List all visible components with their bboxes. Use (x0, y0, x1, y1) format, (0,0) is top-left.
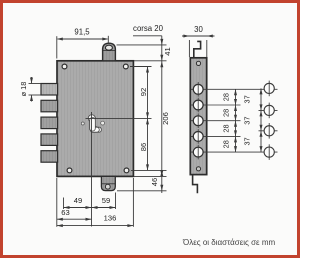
ext line body-left top (56, 36, 58, 58)
svg-text:37: 37 (242, 116, 251, 124)
arrow 28 mid a (234, 130, 237, 136)
ext line body bottom (134, 175, 167, 177)
arrow 28 mid a (234, 115, 237, 121)
arrow 92 bottom (146, 112, 149, 118)
ext line bolt top (29, 83, 41, 85)
keyhole foot (90, 127, 99, 132)
arrow 46 bottom (160, 185, 163, 191)
centre line door hole 2 (259, 109, 278, 111)
arrow 28 bottom (234, 146, 237, 152)
svg-text:92: 92 (139, 88, 148, 96)
door hole 2 (264, 105, 274, 115)
svg-text:28: 28 (221, 140, 230, 148)
ext line latch axis (107, 36, 109, 43)
arrow 37 bottom (260, 146, 263, 152)
keyhole dot right (101, 121, 105, 125)
svg-text:corsa 20: corsa 20 (133, 24, 164, 33)
arrow 30 right (207, 35, 213, 38)
corsa leader line (133, 35, 162, 37)
keyhole cutout (90, 115, 102, 132)
ext line bottom-latch bottom (117, 190, 167, 192)
arrow o18 top (30, 78, 33, 84)
svg-text:63: 63 (61, 208, 69, 217)
svg-text:28: 28 (221, 109, 230, 117)
centre tick plate hole 5 (197, 145, 199, 160)
arrow 136 left (57, 224, 63, 227)
centre tick door hole 2 (268, 103, 270, 119)
centre line plate hole 4 (191, 135, 241, 137)
arrow 91,5 right (102, 38, 108, 41)
dim line 136 (57, 225, 134, 227)
arrow 206 top (160, 61, 163, 67)
dim line 63 (57, 218, 92, 220)
plate hole 2 (193, 100, 203, 110)
ext line bolt bottom (29, 94, 41, 96)
ext line top screw hole (130, 66, 152, 68)
dim line 49-59 (64, 207, 116, 209)
arrow 28 mid a (234, 99, 237, 105)
arrow 86 top (146, 118, 149, 124)
ext line plate left (188, 40, 190, 57)
plate top bent tab (194, 41, 201, 57)
arrow 86 bottom (146, 164, 149, 170)
bottom latch screw (105, 184, 110, 189)
svg-text:41: 41 (163, 47, 172, 55)
bolt 4 (41, 134, 58, 146)
lock body (57, 61, 133, 177)
svg-text:86: 86 (139, 143, 148, 151)
bottom latch (101, 176, 115, 190)
arrow 37 mid b (260, 110, 263, 116)
keyhole dot left (81, 122, 84, 125)
centre tick door hole 3 (268, 123, 270, 139)
bolt 2 (41, 100, 58, 112)
plate hole 5 (193, 147, 203, 157)
faceplate (190, 58, 206, 175)
ext line body top (134, 60, 167, 62)
arrow 49 right (86, 206, 92, 209)
door hole 1 (264, 83, 274, 93)
centre tick plate hole 4 (197, 129, 199, 144)
top latch cylinder (103, 43, 116, 61)
centre line plate hole 1 (191, 88, 278, 90)
arrow 28 top (234, 89, 237, 95)
arrow 59 left (92, 206, 98, 209)
top latch screw ellipse (105, 45, 112, 50)
centre line plate hole 5 (191, 151, 278, 153)
door hole 3 (264, 126, 274, 136)
arrow 46 top (160, 170, 163, 176)
ext line bottom latch right (115, 193, 117, 210)
plate small hole bottom (196, 167, 200, 171)
screw hole bottom-left (67, 168, 72, 173)
centre tick plate hole 2 (197, 98, 199, 113)
centre line plate hole 3 (191, 120, 241, 122)
arrow 206 bottom (160, 170, 163, 176)
centre line keyhole vertical (91, 112, 93, 227)
bolt 1 (41, 84, 58, 96)
arrow 92 top (146, 67, 149, 73)
svg-text:28: 28 (221, 124, 230, 132)
dim line 91,5 (58, 38, 108, 40)
plate small hole top (196, 61, 200, 65)
door hole 4 (264, 147, 274, 157)
ext line body-left bottom (56, 178, 58, 227)
svg-text:30: 30 (194, 25, 203, 34)
arrow 37 mid a (260, 104, 263, 110)
dim line 28 chain (235, 89, 237, 152)
dim line right stack (161, 36, 163, 193)
dim line 30 (182, 35, 215, 37)
arrow 30 left (183, 35, 189, 38)
note: all dimensions in mm (Greek) (183, 238, 275, 247)
svg-text:28: 28 (221, 93, 230, 101)
ext line body-right bottom (132, 178, 134, 227)
centre line keyhole horizontal (86, 117, 152, 119)
centre line plate hole 2 (191, 104, 241, 106)
dim line 37 chain (260, 88, 262, 152)
plate hole 3 (193, 116, 203, 126)
arrow 63 right (86, 218, 92, 221)
svg-text:49: 49 (74, 196, 82, 205)
arrow 37 mid a (260, 125, 263, 131)
arrow 63 left (57, 218, 63, 221)
centre tick door hole 4 (268, 144, 270, 160)
bolt 5 (41, 151, 58, 163)
ext line plate right (206, 40, 208, 57)
screw hole top-left (62, 64, 67, 69)
arrow 37 mid b (260, 131, 263, 137)
arrow 37 top (260, 88, 263, 94)
svg-text:46: 46 (150, 178, 159, 186)
ext line 49 left (63, 198, 65, 210)
top latch split line (103, 50, 116, 52)
arrow 28 mid b (234, 136, 237, 142)
arrow 136 right (127, 224, 133, 227)
ext line latch top (117, 44, 167, 46)
arrow 59 right (110, 206, 116, 209)
arrow 49 left (64, 206, 70, 209)
dim line o18 upper (31, 77, 33, 83)
centre tick plate hole 3 (197, 113, 199, 128)
bottom latch split line (101, 183, 115, 185)
screw hole top-right (123, 64, 128, 69)
keyhole circle top (88, 115, 95, 122)
centre line door hole 3 (259, 130, 278, 132)
svg-text:206: 206 (161, 112, 170, 125)
arrow corsa to latch top (160, 39, 163, 45)
dim line 92-86 (147, 67, 149, 171)
arrow 28 mid b (234, 121, 237, 127)
plate bottom bent tab (193, 175, 198, 193)
svg-text:91,5: 91,5 (74, 28, 90, 37)
screw hole bottom-right (124, 168, 129, 173)
svg-text:ø 18: ø 18 (19, 82, 28, 97)
svg-text:37: 37 (242, 137, 251, 145)
centre tick door hole 1 (268, 81, 270, 97)
dim line o18 lower (31, 95, 33, 101)
svg-text:59: 59 (102, 196, 110, 205)
svg-text:37: 37 (242, 95, 251, 103)
arrow 41 bottom (160, 55, 163, 61)
ext line bottom screw hole (131, 169, 167, 171)
bolt 3 (41, 117, 58, 129)
svg-text:136: 136 (104, 214, 117, 223)
arrow o18 bottom (30, 95, 33, 101)
centre tick plate hole 1 (197, 82, 199, 97)
arrow 91,5 left (57, 38, 63, 41)
arrow 28 mid b (234, 105, 237, 111)
plate hole 1 (193, 84, 203, 94)
plate hole 4 (193, 132, 203, 142)
keyhole stem (90, 118, 96, 132)
